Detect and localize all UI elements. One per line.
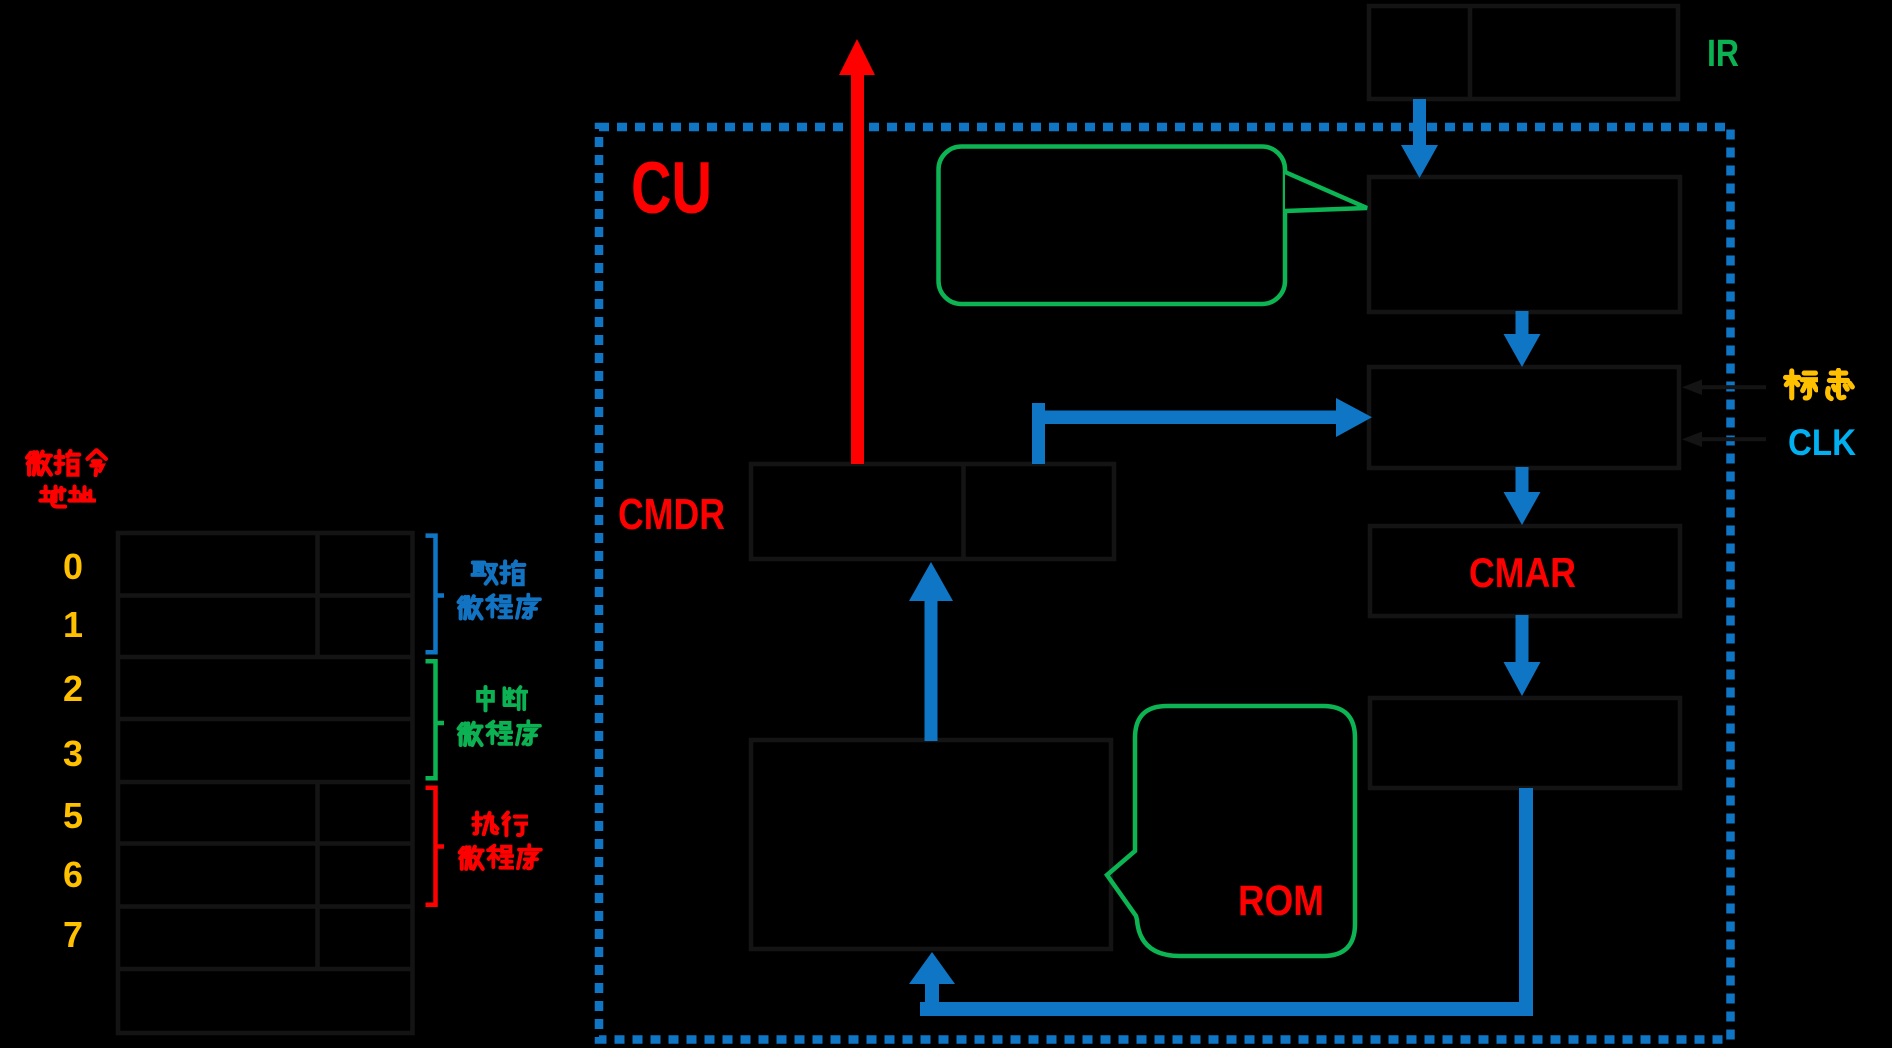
red control-signal arrow: [839, 39, 875, 464]
IR box divider: [1468, 6, 1473, 99]
arrow decoder to sequencer: [1504, 311, 1541, 367]
arrow ROM to CMDR: [909, 562, 953, 741]
svg-text:CMAR: CMAR: [1469, 549, 1576, 596]
arrow CMAR to address-decoder: [1504, 615, 1541, 696]
svg-text:IR: IR: [1707, 33, 1739, 75]
label 中断微程序: [459, 687, 540, 745]
svg-text:2: 2: [63, 668, 83, 709]
IR register box: [1369, 6, 1678, 99]
microprogram table: [118, 533, 413, 1033]
svg-text:CMDR: CMDR: [618, 490, 725, 539]
svg-text:CLK: CLK: [1788, 422, 1856, 463]
svg-text:CU: CU: [631, 148, 712, 229]
callout bubble pointer: [1285, 172, 1367, 211]
elbow arrow CMDR to sequencer: [1032, 398, 1372, 464]
callout bubble (operation decode): [939, 147, 1286, 305]
ROM box: [751, 740, 1111, 949]
CMAR box: [1370, 526, 1680, 616]
svg-text:1: 1: [63, 604, 83, 645]
box address-decoder: [1370, 698, 1680, 788]
brace fetch (blue): [426, 536, 445, 653]
box opcode-decoder: [1369, 177, 1680, 312]
svg-text:0: 0: [63, 546, 83, 587]
CMDR box: [751, 464, 1114, 559]
brace interrupt (green): [426, 661, 445, 778]
flag input arrow (标志): [1682, 380, 1766, 396]
arrow sequencer to CMAR: [1504, 467, 1541, 525]
svg-text:5: 5: [63, 795, 83, 836]
svg-text:ROM: ROM: [1238, 877, 1324, 925]
svg-text:7: 7: [63, 914, 83, 955]
label 取指微程序: [459, 561, 540, 618]
CMDR divider: [961, 464, 966, 559]
arrow IR to decoder: [1401, 99, 1438, 178]
address digits: [63, 546, 83, 955]
CU dashed boundary: [599, 127, 1731, 1040]
feedback path address-decoder to ROM: [909, 788, 1533, 1016]
label 微指令地址: [27, 450, 106, 506]
label 执行微程序: [460, 813, 541, 869]
label 标志: [1786, 370, 1853, 398]
ROM callout bubble: [1107, 706, 1355, 956]
box sequencer: [1369, 367, 1679, 468]
brace execute (red): [426, 788, 445, 905]
svg-text:3: 3: [63, 733, 83, 774]
CLK input arrow: [1682, 432, 1766, 448]
svg-text:6: 6: [63, 854, 83, 895]
